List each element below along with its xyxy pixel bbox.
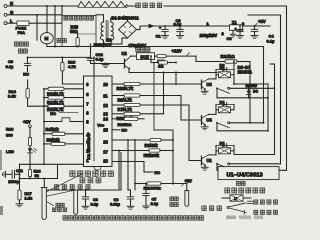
pin 17 [103, 149, 108, 154]
svg-text:3.6k: 3.6k [8, 94, 17, 99]
pin 18 [103, 159, 108, 164]
wire R21 right [233, 61, 250, 63]
label C2 0.1u [174, 18, 183, 27]
svg-text:R20/4.7k: R20/4.7k [117, 86, 134, 91]
svg-text:0.1µ: 0.1µ [6, 64, 15, 69]
contact B arm [217, 123, 230, 128]
wire motor bottom [46, 44, 48, 47]
wire contact A NO [230, 87, 276, 89]
capacitor C7 [143, 183, 150, 209]
svg-text:R8/51Ω: R8/51Ω [118, 122, 133, 127]
svg-text:10: 10 [103, 82, 108, 87]
label R16 1k [34, 169, 42, 178]
pin 15 [103, 127, 108, 132]
caption [63, 216, 204, 221]
resistor R10 [124, 112, 140, 115]
svg-text:17: 17 [103, 149, 108, 154]
fuse FUSE F8A [16, 21, 30, 35]
label 防溢电极 [170, 197, 179, 207]
resistor R7 [124, 103, 140, 106]
regulator Z1 [230, 20, 243, 31]
resistor R19 [61, 56, 64, 84]
wire probe link2 [46, 174, 83, 192]
resistor R18 [28, 128, 31, 149]
caption right marks [226, 216, 263, 220]
label 1N540 D8 [246, 83, 259, 93]
svg-text:C1: C1 [156, 34, 162, 39]
wire secondary bottom [111, 38, 128, 44]
svg-text:R3/22k: R3/22k [47, 137, 61, 142]
pin 8 [86, 92, 89, 97]
svg-text:U1–U4/C9013: U1–U4/C9013 [227, 172, 263, 178]
svg-text:NC: NC [155, 170, 161, 175]
svg-text:NC: NC [122, 128, 128, 133]
label 传感器 [52, 208, 66, 212]
svg-text:15: 15 [103, 127, 108, 132]
label R18 300 [6, 126, 14, 137]
label R14 3.6k [8, 89, 17, 99]
label +5V [255, 19, 266, 26]
resistor R20 [124, 82, 140, 85]
terminal L [4, 18, 13, 24]
svg-text:0.1µ: 0.1µ [267, 38, 276, 43]
wire C6 drop [118, 151, 120, 191]
legend NO contact sym [248, 201, 254, 203]
wire U4 base route [181, 96, 202, 121]
wire pin18 row [112, 162, 144, 173]
label C6 0.1u 2 [91, 197, 99, 207]
svg-text:18: 18 [103, 159, 108, 164]
label R4/51k [46, 127, 60, 132]
label 继电器线圈 [225, 188, 265, 193]
LED [28, 148, 37, 157]
capacitor C6 [82, 189, 89, 209]
resistor R11 [147, 182, 161, 185]
wire K3 leads [216, 70, 234, 75]
wire U1 base route [189, 105, 202, 161]
pin 5 [86, 119, 89, 124]
label 温度 [56, 203, 64, 207]
svg-text:16: 16 [103, 139, 108, 144]
contactor housing box [62, 16, 96, 47]
wire L line left [7, 22, 17, 24]
svg-text:0.1µ: 0.1µ [151, 201, 159, 206]
svg-text:0.2µ: 0.2µ [96, 56, 105, 61]
svg-text:R9/4.7k: R9/4.7k [118, 97, 133, 102]
page smudge [0, 150, 3, 215]
svg-text:+5V: +5V [258, 19, 266, 24]
wire sensor mid row [20, 164, 58, 179]
motor M [40, 33, 53, 44]
wire heater right [164, 5, 287, 7]
node 3 [242, 21, 245, 26]
anti-overflow electrode probe [185, 184, 189, 207]
wire U1 collector [209, 151, 217, 155]
svg-text:U1: U1 [207, 158, 213, 163]
wire R5 right [160, 150, 174, 152]
label 蜂鸣器 [136, 48, 150, 52]
wire U3 collector [209, 75, 217, 79]
buzzer BUZ [137, 53, 155, 60]
label 接电机外壳 [14, 42, 28, 53]
resistor R5 [149, 149, 160, 152]
label R11/4.7k [47, 107, 64, 112]
resistor R12 [43, 96, 83, 99]
label NC pin6 [50, 111, 78, 116]
wire R21 row [196, 61, 225, 63]
label 图例 [236, 181, 245, 185]
wire W3 drop [263, 47, 265, 123]
wire C11 to R17 [19, 164, 21, 190]
relay coil K3 [219, 72, 231, 78]
svg-text:R21/1Ω: R21/1Ω [221, 54, 236, 59]
label 常开触点 [254, 200, 278, 204]
wire K2 leads [216, 105, 234, 110]
transistor U3 [201, 79, 212, 94]
wire drop x135 [134, 140, 136, 190]
wire contact C NO [230, 163, 281, 165]
svg-text:M: M [45, 36, 49, 41]
wire probe link1 [46, 190, 74, 196]
resistor R15 [76, 38, 79, 48]
wire sensor box right [120, 153, 122, 191]
wire pin9 row [62, 83, 83, 85]
wire N to motor [46, 5, 48, 33]
wire NC pin18 [144, 170, 160, 175]
pin 2 of Z1 [222, 30, 236, 37]
wire K1 feed row [234, 151, 275, 155]
svg-text:C3: C3 [227, 36, 233, 41]
pin 1 [86, 158, 89, 163]
contact B pivot [216, 122, 218, 131]
svg-text:300: 300 [6, 132, 13, 137]
terminal +5V [29, 125, 32, 128]
wire pin13 row [112, 113, 164, 115]
pin Vcc [97, 123, 105, 128]
pin 3 [86, 139, 89, 144]
svg-text:14: 14 [103, 116, 108, 121]
ground R17 [16, 204, 23, 207]
wire +5V rail [243, 25, 271, 27]
svg-text:K: K [234, 197, 237, 201]
wire relay feed row [129, 72, 217, 74]
wire probe lead [43, 179, 45, 188]
pin 2 [86, 149, 89, 154]
resistor R4 [43, 132, 83, 135]
IC label vertical [86, 132, 91, 160]
svg-text:+5V: +5V [185, 178, 193, 183]
wire W1 right drop [286, 6, 288, 170]
label B1 [107, 38, 113, 43]
svg-text:+12V: +12V [172, 49, 182, 54]
diode D6 label [220, 62, 226, 67]
pin 6 [86, 110, 89, 115]
wire pin12 row [112, 104, 189, 106]
ground U2 base side [102, 64, 109, 68]
label R7/4.7k [118, 107, 133, 112]
svg-text:1500p: 1500p [8, 179, 20, 184]
wire G line [7, 14, 62, 16]
svg-text:1.8k: 1.8k [25, 196, 33, 201]
svg-text:R7/4.7k: R7/4.7k [118, 107, 133, 112]
resistor R16 [28, 164, 31, 178]
wire pin15 stub [112, 129, 120, 131]
label R10/4.7k [117, 116, 134, 121]
wire U2 collector [131, 55, 137, 57]
pin 7 [86, 101, 89, 106]
svg-text:0.01µ: 0.01µ [110, 202, 121, 207]
label C3 [227, 36, 233, 41]
resistor R11 [43, 105, 83, 108]
label 220V/11V [94, 43, 112, 48]
wire K1 leads [216, 146, 234, 151]
pin 13 [103, 111, 108, 116]
label R3/22k [47, 137, 61, 142]
resistor R23 1ohm [150, 55, 177, 64]
label C12 0.2u [96, 52, 105, 62]
svg-text:Z1: Z1 [232, 20, 238, 25]
diode D6 [216, 100, 234, 107]
transistor U2 [122, 51, 131, 69]
wire R11 row left [134, 183, 147, 185]
svg-text:0.1µ: 0.1µ [174, 21, 183, 26]
svg-text:56Ω: 56Ω [70, 29, 79, 34]
label 100u/25V [200, 33, 218, 38]
svg-text:U2: U2 [122, 51, 128, 56]
label R11/470k [144, 186, 162, 191]
heater element zigzag [78, 1, 127, 7]
terminal N [4, 1, 13, 7]
contact A fixed [228, 87, 230, 89]
capacitor C9 [6, 56, 31, 71]
svg-text:N: N [10, 1, 13, 6]
wire C1 top [164, 25, 166, 27]
wire pin16 row [112, 139, 150, 141]
pin 4 [86, 132, 89, 137]
wire R15 top [78, 34, 96, 38]
wire primary top [96, 15, 104, 22]
svg-text:NC: NC [50, 111, 56, 116]
resistor R21 label [221, 54, 236, 59]
label NC c9 [23, 72, 29, 77]
svg-text:+: + [159, 26, 161, 30]
temperature sensor probe [41, 188, 47, 220]
svg-text:U3: U3 [207, 82, 213, 87]
contact A pivot [216, 87, 218, 97]
label R19 4.7k [68, 59, 77, 69]
wire secondary top [111, 18, 128, 22]
diode D8 [246, 87, 250, 98]
label NC pin15 [122, 128, 128, 133]
svg-text:R18: R18 [6, 126, 14, 131]
label D1-D4/1N4001 [112, 15, 140, 20]
pin 16 [103, 139, 108, 144]
node 1 [207, 21, 210, 26]
capacitor C4 [251, 25, 258, 38]
resistor R22 1ohm [157, 55, 166, 69]
resistor R17 [18, 190, 21, 204]
wire C9 row [28, 56, 91, 58]
label R8/51ohm [118, 122, 133, 127]
wire ladder bus [43, 89, 45, 165]
svg-text:U4: U4 [207, 118, 213, 123]
wire motor bus [47, 46, 264, 48]
capacitor C3 100u [235, 25, 244, 38]
contact C pivot [216, 163, 218, 170]
label R17 1.8k [25, 191, 33, 200]
capacitor C12 [87, 44, 93, 64]
legend relay coil K [222, 195, 251, 201]
wire pin14 row [112, 118, 144, 120]
wire buzzer row right [166, 55, 196, 57]
svg-text:100µ/25V: 100µ/25V [200, 33, 218, 38]
svg-text:R5/200k: R5/200k [144, 153, 160, 158]
label +5V left [23, 119, 31, 124]
wire relay col A NO [270, 64, 275, 155]
svg-text:220V/11V: 220V/11V [94, 43, 112, 48]
wire N to contactor [61, 5, 63, 21]
resistor R14 [26, 80, 29, 106]
wire pin13 riser [163, 73, 165, 114]
label +12V [172, 49, 190, 56]
wire R21 jog [195, 56, 197, 61]
wire contact A NC [217, 97, 269, 99]
wire pin10 riser [175, 73, 177, 85]
wire primary bottom [103, 40, 105, 47]
label 动触点 [202, 206, 222, 211]
label R2/43k [145, 143, 159, 148]
relay coil K1 [219, 148, 231, 154]
wire B NO drop [249, 62, 251, 123]
wire pin17 row [112, 150, 149, 152]
capacitor C11 [12, 170, 19, 178]
contact B fixed [228, 122, 230, 124]
wire R11 right [161, 183, 187, 185]
key symbol pin5 [43, 118, 83, 123]
label 接触器外壳 [64, 16, 94, 20]
resistor R9 [124, 94, 140, 97]
svg-text:BUZ: BUZ [141, 54, 150, 59]
pin 12 [103, 103, 108, 108]
label 电机 [57, 38, 67, 42]
label C7 0.1u [151, 196, 159, 206]
label R20/4.7k [117, 86, 134, 91]
label 由温度传感器 [70, 171, 114, 177]
wire sensor top row [20, 163, 84, 165]
label R12/4.7k [47, 100, 64, 105]
svg-text:D6: D6 [220, 100, 226, 105]
wire contact B NO [230, 122, 265, 124]
legend pivot [227, 203, 246, 215]
svg-text:11: 11 [103, 93, 108, 98]
wire buzzer right [155, 55, 158, 57]
resistor R15 label [70, 24, 79, 34]
capacitor C1 [156, 26, 169, 39]
label D7 [220, 65, 225, 70]
label C4 0.1u [267, 33, 276, 43]
label 外壳接 [80, 178, 101, 183]
label R13/4.7k [47, 91, 64, 96]
svg-text:R2/43k: R2/43k [145, 143, 159, 148]
svg-text:D5: D5 [220, 141, 226, 146]
label C8 0.01u [110, 197, 121, 207]
svg-text:1N4001: 1N4001 [238, 69, 253, 74]
wire U2 base [91, 63, 125, 65]
wire LED bottom [29, 157, 31, 164]
svg-text:+5V: +5V [23, 119, 31, 124]
transformer B1 primary [100, 22, 103, 40]
svg-text:0.1µ: 0.1µ [91, 202, 99, 207]
ground electrode probe [74, 190, 78, 214]
contact A arm [217, 88, 230, 93]
wire bridge output [137, 24, 230, 30]
wire W2 right drop [280, 15, 282, 164]
label 电加热器 [136, 3, 162, 8]
ground C11 [3, 171, 12, 177]
wire U2 emitter join [128, 69, 130, 73]
resistor R3 [43, 142, 83, 145]
svg-text:LED: LED [6, 149, 14, 154]
bridge rectifier D1-D4 [119, 21, 137, 38]
svg-text:F8A: F8A [18, 30, 26, 35]
svg-text:D8: D8 [253, 88, 259, 93]
resistor R8 [124, 117, 138, 120]
svg-text:470µ/25V: 470µ/25V [128, 43, 146, 48]
label 常闭触点 [254, 210, 278, 214]
svg-text:+: + [235, 27, 237, 31]
transistor U1 [201, 155, 212, 170]
wire N line [7, 5, 78, 7]
pin 9 [86, 82, 89, 87]
svg-text:R4/51k: R4/51k [46, 127, 60, 132]
wire W2 top [248, 14, 281, 16]
relay coil K2 [219, 107, 231, 113]
wire C8 drop [127, 140, 129, 190]
wire touch bus corner [154, 63, 173, 184]
wire contact B NC [217, 130, 269, 132]
wire L line right [29, 22, 62, 24]
terminal G [4, 10, 14, 16]
svg-text:NC: NC [23, 72, 29, 77]
svg-text:D1-D4/1N4001: D1-D4/1N4001 [112, 15, 140, 20]
svg-text:C11: C11 [16, 168, 24, 173]
capacitor C2 [177, 25, 184, 38]
label R5/200k [144, 153, 160, 158]
svg-text:4.7k: 4.7k [68, 64, 77, 69]
transistor U4 [201, 114, 212, 129]
pin 11 [103, 93, 108, 98]
wire N drop mid [54, 5, 56, 47]
wire R14 bottom [28, 105, 48, 107]
wire U4 collector [209, 110, 217, 115]
diode D5 [216, 141, 234, 148]
wire pin10 row [112, 83, 202, 85]
wire K3 aux [233, 75, 268, 85]
svg-text:D7: D7 [220, 65, 225, 70]
svg-text:12: 12 [103, 103, 108, 108]
wire into IC top [93, 56, 95, 161]
label LED [6, 149, 14, 154]
contact C arm [217, 164, 230, 169]
wire probe pointer [46, 202, 53, 206]
label +5V bottom [182, 178, 193, 186]
wire relay col A NC [263, 84, 268, 131]
box U1-U4/C9013 [218, 167, 279, 180]
resistor R13 [43, 87, 83, 90]
wire heater stub [127, 5, 135, 7]
label C11 1500p [8, 168, 24, 184]
diode D7 [216, 68, 234, 72]
